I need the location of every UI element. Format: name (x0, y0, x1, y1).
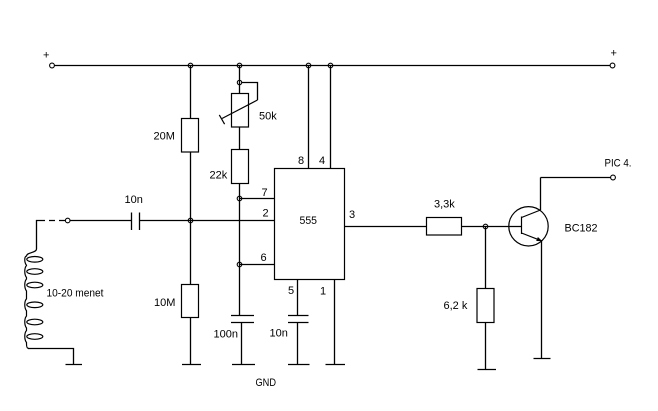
wire pin 8 (308, 66, 310, 170)
transistor Q1 collector diagonal (522, 210, 541, 218)
capacitor C1 10n plates (131, 213, 133, 231)
node V+ right terminal (610, 63, 615, 68)
wire C2 to ground (241, 323, 243, 365)
transistor Q1 base bar (521, 217, 523, 235)
capacitor C3 10n plates (288, 315, 309, 317)
junction pin6 net (237, 262, 242, 267)
svg-text:6,2 k: 6,2 k (444, 300, 468, 312)
node PIC 4 terminal (611, 175, 616, 180)
wire antenna top lead corner (37, 221, 40, 250)
svg-text:3: 3 (349, 209, 355, 221)
svg-text:20M: 20M (154, 131, 175, 143)
wire C1 to pin 2 (140, 220, 275, 222)
resistor R3 10M (182, 285, 199, 318)
svg-text:10-20 menet: 10-20 menet (47, 288, 104, 300)
inductor L1 turn 3 (27, 282, 43, 288)
svg-text:8: 8 (298, 155, 304, 167)
svg-text:+: + (43, 50, 49, 62)
svg-text:7: 7 (262, 187, 268, 199)
svg-text:100n: 100n (214, 329, 238, 341)
resistor R2 22k (232, 150, 249, 184)
wire pot to R2 (22k) (239, 127, 241, 149)
transistor Q1 BC182 circle (509, 207, 548, 246)
wire dashed antenna segment (39, 220, 65, 222)
svg-text:50k: 50k (259, 111, 277, 123)
ground under R5 (478, 369, 497, 371)
svg-text:5: 5 (288, 285, 294, 297)
svg-text:22k: 22k (210, 170, 228, 182)
wire pin 6 (240, 264, 275, 266)
resistor R1 20M (182, 119, 199, 153)
svg-text:6: 6 (261, 252, 267, 264)
junction rail/pin4 (328, 63, 333, 68)
capacitor C2 100n plates (231, 315, 254, 317)
wire R1 to signal node (190, 152, 192, 221)
wire pin 7 (240, 198, 275, 200)
wire R3 to ground (190, 318, 192, 365)
wire pin7 node to pin6 node (239, 199, 241, 265)
inductor L1 turn 6 (27, 334, 43, 340)
junction rail/20M (188, 63, 193, 68)
wire pin 4 (330, 66, 332, 170)
wire R4 to base (462, 226, 522, 228)
wire pin 1 to ground (334, 279, 336, 365)
wire collector up (540, 178, 542, 211)
wire rail to R1 (20M) (190, 66, 192, 119)
svg-text:BC182: BC182 (565, 223, 598, 235)
potentiometer P1 wiper tail tick (219, 115, 224, 124)
ground under pin 1 (326, 364, 346, 366)
wire collector to PIC terminal (541, 177, 611, 179)
wire R3 (10M) top (190, 221, 192, 285)
potentiometer P1 50k body (232, 94, 249, 128)
svg-text:PIC 4.: PIC 4. (605, 158, 632, 170)
op IC U1 555 body (275, 169, 345, 280)
junction base/R5 (483, 224, 488, 229)
junction rail/pin8 (306, 63, 311, 68)
svg-text:GND: GND (256, 377, 277, 389)
svg-text:555: 555 (300, 215, 318, 227)
ground under coil (66, 364, 83, 366)
svg-text:3,3k: 3,3k (434, 199, 455, 211)
svg-text:10n: 10n (270, 328, 288, 340)
svg-text:4: 4 (319, 155, 325, 167)
svg-text:+: + (611, 48, 617, 60)
inductor L1 turn 5 (27, 319, 43, 325)
transistor Q1 emitter arrow (536, 237, 542, 241)
inductor L1 turn 1 (27, 257, 43, 263)
wire pin 3 (345, 226, 427, 228)
inductor L1 turn 4 (27, 302, 43, 308)
wire pin6 node to C2 (100n) (239, 265, 241, 316)
resistor R5 6,2k (477, 289, 494, 323)
svg-text:1: 1 (320, 286, 326, 298)
inductor L1 turn 2 (27, 269, 43, 275)
ground under R3 (182, 364, 201, 366)
wire antenna node to C1 (70, 220, 132, 222)
wire coil bottom lead (28, 349, 74, 365)
potentiometer P1 wiper arrow (222, 100, 258, 119)
ground under C3 (288, 364, 310, 366)
wire wiper loop (242, 83, 258, 101)
wire junction to R5 (6,2k) (485, 227, 487, 289)
junction rail/pot (237, 63, 242, 68)
inductor L1 coil body (25, 249, 37, 349)
wire R2 to pin7 node (239, 184, 241, 199)
wire C3 to ground (297, 323, 299, 365)
node V+ left terminal (50, 63, 55, 68)
wire rail to potentiometer (239, 66, 241, 94)
ground under C2 (232, 364, 255, 366)
node antenna terminal (65, 218, 70, 223)
transistor Q1 emitter diagonal (522, 233, 542, 241)
wire supply rail (55, 65, 611, 67)
junction signal/R1/R3 (188, 218, 193, 223)
svg-text:10M: 10M (154, 297, 175, 309)
resistor R4 3,3k (427, 218, 462, 236)
wire emitter to ground (541, 241, 543, 359)
ground under emitter (534, 358, 551, 360)
svg-text:2: 2 (263, 208, 269, 220)
wire pin 5 (297, 279, 299, 316)
junction pin7 net (237, 196, 242, 201)
node pot wiper tap (237, 80, 241, 84)
svg-text:10n: 10n (125, 194, 143, 206)
wire R5 to ground (485, 323, 487, 370)
